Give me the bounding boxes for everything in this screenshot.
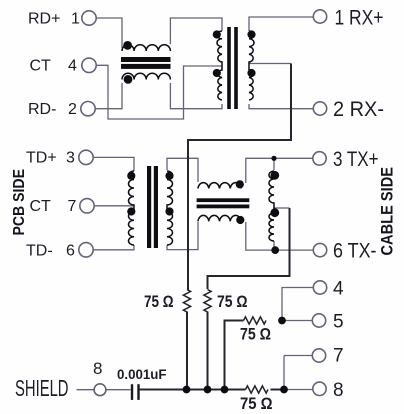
polarity dot T3 left winding lower (127, 207, 135, 215)
svg-text:7: 7 (68, 198, 77, 215)
pin 8 (cable side) (313, 382, 326, 395)
wire T3 right winding top to T4 top coil left (167, 158, 198, 182)
wire T5 winding top to TX+ node (273, 158, 275, 170)
pin 6 (PCB side TD-) (79, 243, 93, 257)
wire T3 right winding bottom to T4 bottom coil left (167, 222, 198, 250)
wire pin6 TD- to T3 left winding bottom (93, 245, 134, 250)
core of transformer T3 (147, 166, 151, 248)
svg-text:3: 3 (66, 150, 75, 167)
pin 4 (cable side) (313, 281, 326, 294)
wire TX termination (thick) from T5 tap down to R2 (208, 208, 290, 289)
junction node TX+ (271, 156, 276, 161)
svg-text:7: 7 (333, 346, 344, 367)
svg-text:0.001uF: 0.001uF (117, 366, 167, 382)
wire pin4 cable to node 4/5 (282, 288, 313, 321)
wire SHIELD pin to capacitor (106, 389, 131, 391)
polarity dot T3 left winding upper (127, 172, 135, 180)
wire pin2 to T1 bottom coil left (95, 83, 122, 109)
svg-text:SHIELD: SHIELD (15, 375, 69, 401)
polarity dot T2 left winding lower (213, 69, 221, 77)
transformer T4 TX isolation top coil (198, 183, 241, 189)
pin 7 (PCB side CT) (80, 199, 94, 213)
junction node common at R4 branch (221, 386, 229, 394)
pin 1 (PCB side RD+) (82, 11, 96, 25)
resistor R1 75ohm (RX termination) (183, 290, 190, 313)
svg-text:6 TX-: 6 TX- (333, 240, 377, 263)
polarity dot T1 top coil (123, 41, 132, 50)
wire T4 bottom coil right to pin 6 TX- (246, 222, 313, 250)
svg-text:8: 8 (93, 359, 102, 378)
svg-text:2: 2 (68, 101, 77, 118)
wire R1 to common node (186, 312, 188, 390)
svg-text:PCB SIDE: PCB SIDE (11, 169, 28, 236)
svg-text:75 Ω: 75 Ω (217, 292, 248, 311)
core of transformer T4 (197, 198, 250, 202)
polarity dot T2 left winding upper (213, 30, 221, 38)
pin SHIELD (94, 384, 106, 396)
transformer T5 TX cable winding (269, 171, 274, 241)
wire T1 bottom coil right to T2 left winding bottom (170, 83, 222, 109)
wire node 7/8 riser (283, 356, 285, 390)
polarity dot T2 right winding lower (247, 69, 255, 77)
capacitor C1 0.001uF plates (131, 384, 133, 400)
transformer T2 RX isolation right winding (249, 31, 254, 100)
svg-text:3 TX+: 3 TX+ (333, 148, 379, 171)
wire pin3 TD+ to T3 left winding top (93, 157, 134, 171)
wire T5 winding bottom to TX- node (273, 241, 275, 250)
pin 2 (PCB side RD-) (81, 102, 95, 116)
wire T2 right winding top to pin 1 RX+ (249, 17, 313, 31)
svg-text:1: 1 (71, 11, 80, 28)
wire pin7 CT to T3 left winding tap (94, 205, 134, 207)
pin 4 (PCB side CT) (82, 58, 96, 72)
wire T4 top coil right to pin 3 TX+ (246, 158, 313, 183)
wire common node to R4 (pins 4/5 termination) (225, 321, 244, 390)
polarity dot T1 bottom coil (124, 75, 133, 84)
pin 2 RX- (cable side) (313, 102, 326, 115)
svg-text:TD+: TD+ (26, 150, 57, 167)
transformer T1 RX choke bottom coil (122, 73, 170, 79)
wire common node bus (139, 389, 285, 391)
wire T5 winding tap (274, 207, 290, 209)
svg-text:CABLE SIDE: CABLE SIDE (378, 167, 397, 256)
polarity dot T4 bottom coil (236, 216, 244, 224)
transformer T1 RX choke top coil (122, 45, 170, 51)
svg-text:RD-: RD- (28, 101, 56, 118)
svg-text:75 Ω: 75 Ω (240, 394, 273, 413)
resistor R4 75ohm (pins 4/5 termination) (244, 317, 267, 324)
pin 3 TX+ (cable side) (313, 152, 326, 165)
svg-text:TD-: TD- (26, 243, 53, 260)
polarity dot T5 winding upper (270, 171, 279, 180)
pin 7 (cable side) (312, 349, 325, 362)
wire T2 right winding tap (249, 63, 291, 65)
svg-text:4: 4 (333, 279, 344, 300)
wire node 7/8 to pin 7 (284, 355, 312, 357)
junction node TX- (271, 246, 279, 254)
svg-text:75 Ω: 75 Ω (144, 292, 174, 311)
pin 6 TX- (cable side) (313, 243, 326, 256)
transformer T3 TX choke left winding (128, 171, 134, 245)
polarity dot T3 right winding lower (165, 207, 173, 215)
svg-text:RD+: RD+ (28, 11, 60, 28)
polarity dot T3 right winding upper (165, 172, 173, 180)
svg-text:1 RX+: 1 RX+ (335, 6, 384, 29)
wire node 4/5 to pin 5 (282, 320, 312, 322)
pin 3 (PCB side TD+) (79, 150, 93, 164)
junction node common at R1 (183, 386, 191, 394)
transformer T3 TX choke right winding (167, 171, 173, 245)
wire SHIELD lead (77, 389, 95, 391)
transformer T4 TX isolation bottom coil (198, 215, 241, 221)
resistor R5 75ohm (pins 7/8 termination) (246, 386, 269, 393)
wire pin4 CT to T2 left winding tap (96, 65, 222, 119)
wire node 7/8 to pin 8 (284, 389, 313, 391)
pin 5 (cable side) (312, 314, 325, 327)
transformer T2 RX isolation left winding (217, 31, 222, 100)
svg-text:4: 4 (68, 58, 77, 75)
junction node common at R2 (204, 386, 212, 394)
polarity dot T2 right winding upper (247, 30, 255, 38)
svg-text:5: 5 (333, 312, 344, 333)
wire RX termination (thick) from T2 tap down to R1 (188, 64, 291, 291)
svg-text:8: 8 (333, 380, 344, 401)
polarity dot T5 winding lower (270, 208, 279, 217)
core of transformer T2 (227, 27, 231, 109)
core of transformer T1 (121, 57, 171, 62)
svg-text:75 Ω: 75 Ω (240, 325, 271, 344)
polarity dot T4 top coil (236, 180, 244, 188)
svg-text:CT: CT (30, 198, 52, 215)
svg-text:2 RX-: 2 RX- (333, 98, 384, 121)
wire pin1 to T1 top coil (96, 18, 122, 48)
wire T1 top coil right to T2 left winding top (170, 18, 222, 44)
svg-text:6: 6 (66, 243, 75, 260)
pin 1 RX+ (cable side) (313, 10, 326, 23)
wire R2 to common node (207, 312, 209, 390)
junction node 7/8 (280, 386, 288, 394)
junction node 4/5 (278, 317, 286, 325)
resistor R2 75ohm (TX termination) (204, 290, 211, 313)
wire T2 right winding bottom to pin 2 RX- (249, 104, 313, 109)
svg-text:CT: CT (30, 58, 52, 75)
